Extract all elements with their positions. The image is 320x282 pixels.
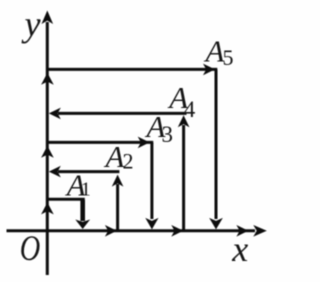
x-axis arrowhead bbox=[253, 225, 266, 237]
up arrowhead on y-axis at A5 level bbox=[41, 73, 54, 85]
down arrowhead at x-axis from A5 bbox=[209, 218, 223, 230]
wire A5 horizontal line bbox=[48, 68, 217, 71]
svg-text:O: O bbox=[20, 228, 41, 268]
right arrowhead on x-axis before A2 bbox=[105, 225, 117, 237]
right arrowhead at A5 line end bbox=[203, 64, 215, 76]
bold down arrowhead of A1 arrow bbox=[75, 220, 90, 230]
wire A3 riser bbox=[150, 142, 153, 219]
y-axis arrowhead bbox=[42, 11, 54, 25]
svg-text:A4: A4 bbox=[167, 80, 195, 122]
up arrowhead at A4 riser top bbox=[178, 115, 190, 127]
wire A3 horizontal line bbox=[48, 141, 153, 144]
right arrowhead on x-axis after A5 bbox=[236, 225, 248, 237]
x-axis bbox=[7, 229, 256, 232]
up arrowhead on y-axis at A3 level bbox=[41, 146, 54, 158]
wire A5 riser bbox=[215, 69, 218, 219]
right arrowhead on x-axis before A4 bbox=[171, 225, 183, 237]
wire A2 return line bbox=[58, 170, 119, 173]
up arrowhead on y-axis at A1 level bbox=[41, 202, 54, 214]
y-axis bbox=[46, 22, 49, 275]
down arrowhead at x-axis from A3 bbox=[145, 218, 158, 230]
svg-text:x: x bbox=[231, 229, 248, 269]
left arrowhead at y-axis from A2 bbox=[49, 166, 61, 178]
svg-text:y: y bbox=[22, 4, 41, 44]
wire A1 horizontal line bbox=[48, 198, 85, 201]
svg-text:A2: A2 bbox=[104, 139, 134, 174]
wire A4 riser bbox=[182, 125, 185, 231]
right arrowhead at A3 line end bbox=[138, 137, 150, 149]
svg-text:A5: A5 bbox=[204, 33, 234, 70]
up arrowhead at A2 riser top bbox=[112, 175, 124, 187]
wire A2 riser bbox=[116, 184, 119, 231]
left arrowhead at y-axis from A4 bbox=[49, 108, 61, 120]
wire A4 return line bbox=[58, 112, 187, 115]
wire A1 bold down-arrow shaft bbox=[80, 200, 85, 221]
